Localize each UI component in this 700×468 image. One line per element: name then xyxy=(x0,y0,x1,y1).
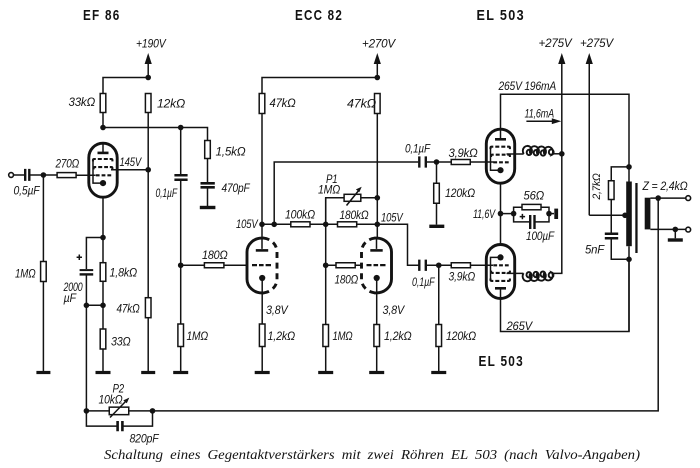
wire 1M to ground xyxy=(42,282,44,372)
svg-text:+275V: +275V xyxy=(539,36,574,50)
supply +275V arrow 2 xyxy=(586,53,593,215)
svg-text:10kΩ: 10kΩ xyxy=(99,393,123,407)
svg-text:33kΩ: 33kΩ xyxy=(69,95,96,109)
node EF86 anode xyxy=(100,125,106,131)
svg-text:EL 503: EL 503 xyxy=(477,7,526,24)
svg-text:180Ω: 180Ω xyxy=(335,273,359,287)
capacitor 470pF xyxy=(201,181,251,195)
capacitor 820pF xyxy=(86,411,160,446)
wire 3,9k to grid xyxy=(470,161,493,163)
node cathode 11,6V xyxy=(498,211,504,217)
wire coil to screen rail bottom xyxy=(551,272,561,273)
node P2 right xyxy=(150,408,156,414)
wire 270V rail xyxy=(262,78,377,94)
supply +270V arrow xyxy=(374,53,381,78)
coil screen bottom xyxy=(523,272,554,282)
input terminal xyxy=(9,173,14,178)
wire 1M2 ground xyxy=(180,347,182,372)
wire 470p to ground xyxy=(207,189,209,207)
node feedback tap xyxy=(84,303,90,309)
ground 120k bottom xyxy=(431,371,446,374)
wire secondary bottom xyxy=(650,228,685,230)
node center tap xyxy=(622,213,628,219)
ground input 1M xyxy=(36,371,50,374)
wire center tap xyxy=(589,214,626,216)
node anode1 xyxy=(259,222,265,228)
transformer secondary xyxy=(645,198,651,230)
capacitor 0,1uF coupling EF86 xyxy=(156,128,188,266)
resistor 56 Ohm xyxy=(514,189,549,214)
svg-text:Schaltung eines Gegentaktverst: Schaltung eines Gegentaktverstärkers mit… xyxy=(104,447,640,462)
node g1 bottom EL503 xyxy=(436,262,442,268)
wire 47k to ground xyxy=(147,318,149,371)
wire coil to screen rail xyxy=(552,153,562,155)
resistor 120kOhm bottom xyxy=(436,265,476,346)
resistor 47kOhm anode1 xyxy=(259,94,295,114)
wire cap1 to node xyxy=(427,161,451,163)
svg-text:270Ω: 270Ω xyxy=(55,157,79,171)
ground 470pF xyxy=(200,206,216,209)
ground secondary xyxy=(668,238,683,241)
node cathode bottom xyxy=(100,303,106,309)
node RC left xyxy=(511,211,517,217)
capacitor 0,1uF coupling1 xyxy=(405,142,431,168)
wire anode2 to coupling2 xyxy=(377,224,419,265)
resistor 47kOhm screen xyxy=(117,298,152,318)
wire to RC pair xyxy=(501,213,514,215)
svg-text:100µF: 100µF xyxy=(526,229,555,243)
terminal out top xyxy=(686,196,691,201)
node input grid xyxy=(41,172,47,178)
node branch up xyxy=(271,222,277,228)
svg-text:180kΩ: 180kΩ xyxy=(340,208,369,222)
resistor 120kOhm top xyxy=(434,162,475,203)
svg-text:1MΩ: 1MΩ xyxy=(187,329,209,343)
wire secondary top xyxy=(650,197,685,199)
svg-text:EF 86: EF 86 xyxy=(83,7,121,24)
wire 2,7k to 5nF xyxy=(610,200,612,233)
wire 270 to grid xyxy=(76,174,95,176)
wire cathode2 xyxy=(376,293,378,325)
svg-text:1MΩ: 1MΩ xyxy=(318,183,340,197)
svg-text:265V 196mA: 265V 196mA xyxy=(498,79,556,93)
resistor 1MOhm mid xyxy=(323,325,353,347)
resistor 33 Ohm xyxy=(100,305,130,349)
wire 33R to ground xyxy=(102,349,104,371)
ground 1,2k first xyxy=(255,371,270,374)
resistor 180kOhm xyxy=(338,208,369,227)
supply +190V arrow xyxy=(145,53,152,78)
pot P2 10k xyxy=(86,382,152,418)
node ground tap xyxy=(673,227,679,233)
svg-text:0,1µF: 0,1µF xyxy=(405,142,431,156)
wire 5nF to primary bottom xyxy=(611,239,629,259)
wire 120k to ground xyxy=(436,203,438,224)
wire +190V rail xyxy=(103,78,148,94)
node 145V screen xyxy=(145,167,151,173)
wire to ground secondary xyxy=(674,229,676,238)
svg-text:105V: 105V xyxy=(236,217,259,231)
svg-text:1MΩ: 1MΩ xyxy=(15,267,36,281)
pot P1 1M xyxy=(318,172,377,224)
node divider mid xyxy=(323,222,329,228)
resistor 2,7kOhm xyxy=(591,167,629,201)
svg-text:105V: 105V xyxy=(381,211,404,225)
svg-text:5nF: 5nF xyxy=(585,243,606,257)
capacitor 2000uF branch xyxy=(63,238,103,306)
wire input to cap xyxy=(14,174,25,176)
wire node pair xyxy=(86,304,103,306)
wire 12k to screen node xyxy=(147,113,149,170)
svg-text:11,6mA: 11,6mA xyxy=(525,107,555,121)
ground 1M3 xyxy=(318,371,333,374)
svg-text:+275V: +275V xyxy=(580,36,615,50)
wire feedback down xyxy=(85,305,87,411)
resistor 270 Ohm xyxy=(55,157,79,178)
svg-text:+190V: +190V xyxy=(136,37,167,51)
wire screen to node xyxy=(111,169,148,171)
svg-text:EL 503: EL 503 xyxy=(479,353,525,370)
svg-text:11,6V: 11,6V xyxy=(473,207,497,221)
node 180R-2 tap xyxy=(323,262,329,268)
svg-text:47kΩ: 47kΩ xyxy=(117,302,140,316)
svg-text:56Ω: 56Ω xyxy=(524,189,545,203)
svg-text:1,5kΩ: 1,5kΩ xyxy=(216,145,246,159)
svg-text:33Ω: 33Ω xyxy=(111,335,131,349)
svg-text:0,5µF: 0,5µF xyxy=(14,184,41,198)
node anode2 xyxy=(375,222,381,228)
wire anode row to 1.5k xyxy=(103,128,208,141)
svg-text:1,8kΩ: 1,8kΩ xyxy=(110,266,138,280)
ground 47k xyxy=(141,371,155,374)
wire 33k to anode node xyxy=(102,113,104,128)
resistor 100kOhm xyxy=(285,208,315,227)
wire feedback long xyxy=(153,198,659,411)
resistor 1,8kOhm xyxy=(100,238,137,282)
svg-text:180Ω: 180Ω xyxy=(202,248,228,262)
svg-text:1MΩ: 1MΩ xyxy=(333,329,353,343)
wire screen node down to 47k xyxy=(147,170,149,298)
wire 100k-180k xyxy=(310,223,338,225)
svg-text:265V: 265V xyxy=(506,319,534,333)
wire 1M3 ground xyxy=(325,347,327,372)
svg-text:3,9kΩ: 3,9kΩ xyxy=(449,146,478,160)
terminal out bottom xyxy=(686,227,691,232)
pentode EL503 top xyxy=(486,129,514,183)
resistor 180 Ohm grid1 xyxy=(181,248,248,268)
resistor 3,9kOhm bottom xyxy=(449,263,476,284)
node primary top tap xyxy=(626,164,632,170)
svg-text:3,8V: 3,8V xyxy=(266,303,289,317)
resistor 1,2kOhm second xyxy=(374,325,412,347)
wire 1,2k2 ground xyxy=(376,347,378,372)
wire 1,5k to 470pF xyxy=(207,159,209,183)
svg-text:820pF: 820pF xyxy=(130,432,161,446)
node P2 left xyxy=(84,408,90,414)
pentode EF86 xyxy=(89,143,117,197)
capacitor 0,1uF coupling2 xyxy=(412,260,436,289)
pentode EL503 bottom xyxy=(486,245,514,299)
ground 1M2 xyxy=(173,371,188,374)
coil screen top xyxy=(523,146,554,156)
wire 1,2k ground xyxy=(261,347,263,372)
svg-text:1,2kΩ: 1,2kΩ xyxy=(268,329,296,343)
wire cap2 to node xyxy=(427,264,451,266)
wire 105V row left xyxy=(262,223,291,225)
node 270V xyxy=(375,75,381,81)
wire divider mid down xyxy=(325,198,327,325)
svg-text:120kΩ: 120kΩ xyxy=(445,186,475,200)
node feedback tap xyxy=(655,195,661,201)
wire down to 1M xyxy=(42,175,44,262)
wire anode top rail xyxy=(501,94,630,181)
svg-text:Z = 2,4kΩ: Z = 2,4kΩ xyxy=(642,179,688,193)
svg-text:145V: 145V xyxy=(120,155,143,169)
svg-text:1,2kΩ: 1,2kΩ xyxy=(384,329,412,343)
ground 120k top xyxy=(429,225,444,228)
svg-text:3,9kΩ: 3,9kΩ xyxy=(449,270,476,284)
svg-text:2,7kΩ: 2,7kΩ xyxy=(591,173,603,200)
wire anode1 line xyxy=(261,114,263,239)
svg-text:+270V: +270V xyxy=(362,37,397,51)
node RC right xyxy=(546,211,552,217)
ground 33R xyxy=(96,371,111,374)
svg-text:12kΩ: 12kΩ xyxy=(157,97,185,111)
node at 190V rail xyxy=(145,75,151,81)
resistor 47kOhm anode2 xyxy=(347,94,380,114)
svg-text:47kΩ: 47kΩ xyxy=(270,96,296,110)
wire 180k to anode2 xyxy=(357,223,378,225)
resistor 33kOhm xyxy=(69,94,106,113)
transformer core xyxy=(635,183,637,253)
wire primary bottom xyxy=(628,246,630,331)
wire cap to 270 xyxy=(30,174,57,176)
arrow 11,6mA xyxy=(526,118,561,124)
supply +275V arrow 1 xyxy=(558,53,565,273)
resistor 1MOhm grid1 leak xyxy=(178,265,208,346)
wire 120k2 ground xyxy=(438,347,440,372)
wire g2 to coil top xyxy=(507,153,524,155)
wire 3,9k2 to grid xyxy=(470,264,493,266)
capacitor 100uF xyxy=(514,214,556,243)
svg-text:0,1µF: 0,1µF xyxy=(156,186,179,200)
wire EF86 cathode xyxy=(102,197,104,237)
resistor 1,5kOhm xyxy=(205,141,246,159)
svg-text:100kΩ: 100kΩ xyxy=(285,208,315,222)
node grid feed ECC82 xyxy=(178,262,184,268)
wire g2 to coil bottom xyxy=(507,272,524,274)
wire branch to coupling 1 xyxy=(274,162,418,224)
svg-text:0,1µF: 0,1µF xyxy=(412,275,436,289)
ground 1,2k second xyxy=(369,371,384,374)
node cathode top xyxy=(100,235,106,241)
node primary bottom tap xyxy=(626,257,632,263)
wire cathode1 xyxy=(261,293,263,324)
wire cathode top EL503 xyxy=(500,183,502,244)
chassis bar xyxy=(554,209,558,219)
wire 1,8k to node xyxy=(102,281,104,305)
wire anode bottom 265V xyxy=(501,259,630,331)
svg-text:470pF: 470pF xyxy=(222,181,251,195)
transformer primary xyxy=(626,182,632,247)
svg-text:120kΩ: 120kΩ xyxy=(446,329,476,343)
capacitor 5nF xyxy=(585,234,618,257)
node screen rail xyxy=(559,151,565,157)
svg-text:µF: µF xyxy=(64,291,78,305)
resistor 12kOhm xyxy=(145,94,185,113)
resistor 3,9kOhm top xyxy=(449,146,478,165)
node g1 top EL503 xyxy=(434,159,440,165)
triode ECC82b xyxy=(361,238,391,293)
svg-text:47kΩ: 47kΩ xyxy=(347,97,376,111)
capacitor 0,5uF xyxy=(14,169,41,198)
node coupling cap tap xyxy=(178,125,184,131)
wire anode2 line xyxy=(376,114,378,239)
wire to chassis xyxy=(549,213,554,215)
svg-text:3,8V: 3,8V xyxy=(383,303,406,317)
resistor 1MOhm input xyxy=(15,262,46,282)
node P1 right xyxy=(375,195,381,201)
resistor 180 Ohm grid2 xyxy=(326,263,362,287)
resistor 1,2kOhm first xyxy=(259,324,295,347)
svg-text:ECC 82: ECC 82 xyxy=(295,7,343,24)
triode ECC82a xyxy=(247,238,277,293)
